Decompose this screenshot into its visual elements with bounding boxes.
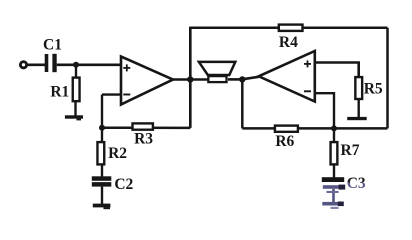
ground (under C3, blue ink) — [322, 202, 344, 210]
resistor R5 — [355, 77, 362, 99]
capacitor C2 — [92, 176, 112, 186]
wire U1 output to speaker — [173, 78, 209, 81]
ground (under R1) — [65, 115, 83, 120]
capacitor C3 (polarized, blue ink) — [322, 177, 345, 202]
node D (speaker right junction) — [239, 76, 245, 82]
speaker LS — [199, 62, 235, 82]
wire node D to U2 output — [242, 77, 258, 80]
label C3 — [347, 175, 366, 192]
wire node D down to bottom run — [241, 79, 244, 128]
op-amp U1 — [121, 57, 173, 105]
wire U2 + input to R5 — [315, 63, 359, 78]
ground (under C2) — [93, 204, 111, 210]
svg-text:R6: R6 — [275, 133, 294, 150]
svg-text:C1: C1 — [43, 37, 62, 54]
input terminal — [20, 62, 26, 68]
resistor R4 — [279, 25, 303, 31]
resistor R2 — [97, 142, 104, 164]
wire C2 to ground — [101, 187, 103, 204]
svg-text:R4: R4 — [279, 34, 298, 51]
wire C1 to op-amp U1 + input — [57, 64, 122, 67]
wire feedback bottom run — [102, 126, 190, 129]
node B (feedback junction) — [99, 125, 105, 131]
wire down to feedback node — [101, 95, 103, 128]
node A (input node junction) — [73, 62, 79, 68]
svg-text:R5: R5 — [364, 80, 383, 97]
wire node A down to R1 — [75, 65, 77, 79]
wire bottom run right — [242, 127, 387, 130]
svg-text:R2: R2 — [108, 145, 127, 162]
wire R1 to ground — [74, 102, 76, 116]
resistor R3 — [133, 123, 153, 129]
capacitor C1 — [45, 54, 57, 72]
svg-text:R3: R3 — [134, 131, 153, 148]
svg-text:R7: R7 — [341, 142, 360, 159]
op-amp U2 — [259, 51, 315, 102]
wire node E to R7 — [333, 128, 335, 143]
wire R2 to C2 — [101, 164, 103, 178]
wire input to C1 — [27, 64, 46, 67]
wire R5 to ground — [358, 99, 360, 117]
wire node B down to R2 — [101, 128, 103, 143]
wire speaker to node D — [228, 78, 242, 81]
wire top rail — [190, 27, 387, 30]
wire U1 inverting input left — [102, 93, 121, 95]
wire R7 to C3 — [333, 164, 335, 178]
ground (under R5) — [347, 117, 367, 120]
resistor R6 — [275, 126, 298, 132]
wire U2 - input to node E — [315, 93, 334, 128]
node C (U1 output junction) — [187, 76, 193, 82]
wire node C vertical (top rail to feedback run) — [189, 27, 192, 128]
wire right rail — [386, 28, 389, 129]
resistor R7 — [331, 142, 338, 164]
svg-text:C2: C2 — [114, 176, 133, 193]
svg-text:R1: R1 — [50, 83, 69, 100]
resistor R1 — [73, 78, 80, 102]
node E (R7 junction) — [331, 125, 337, 131]
